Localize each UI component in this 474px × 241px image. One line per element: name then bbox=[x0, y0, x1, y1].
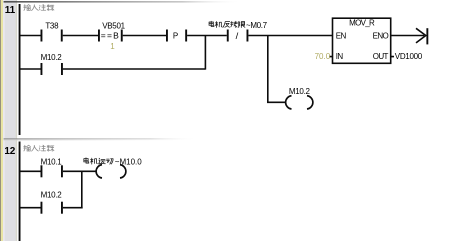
svg-text:M10.1: M10.1 bbox=[41, 158, 63, 167]
svg-text:EN: EN bbox=[336, 31, 347, 40]
svg-text:11: 11 bbox=[5, 5, 16, 16]
svg-text:T38: T38 bbox=[45, 22, 59, 31]
svg-text:M10.2: M10.2 bbox=[289, 87, 311, 96]
svg-text:12: 12 bbox=[4, 146, 15, 157]
svg-text:M10.2: M10.2 bbox=[41, 191, 63, 200]
svg-text:IN: IN bbox=[336, 52, 344, 61]
svg-text:/: / bbox=[236, 31, 239, 42]
svg-text:ENO: ENO bbox=[373, 31, 389, 40]
svg-text:MOV_R: MOV_R bbox=[349, 19, 375, 28]
svg-text:70.0: 70.0 bbox=[315, 52, 331, 61]
svg-text:VD1000: VD1000 bbox=[395, 52, 423, 61]
svg-text:~M10.0: ~M10.0 bbox=[115, 158, 142, 167]
svg-text:M10.2: M10.2 bbox=[41, 53, 63, 62]
svg-text:P: P bbox=[173, 32, 178, 41]
svg-text:1: 1 bbox=[110, 42, 115, 51]
svg-text:VB501: VB501 bbox=[102, 22, 125, 31]
svg-text:==B: ==B bbox=[101, 31, 120, 41]
svg-text:~M0.7: ~M0.7 bbox=[246, 21, 268, 30]
svg-text:OUT: OUT bbox=[373, 52, 389, 61]
